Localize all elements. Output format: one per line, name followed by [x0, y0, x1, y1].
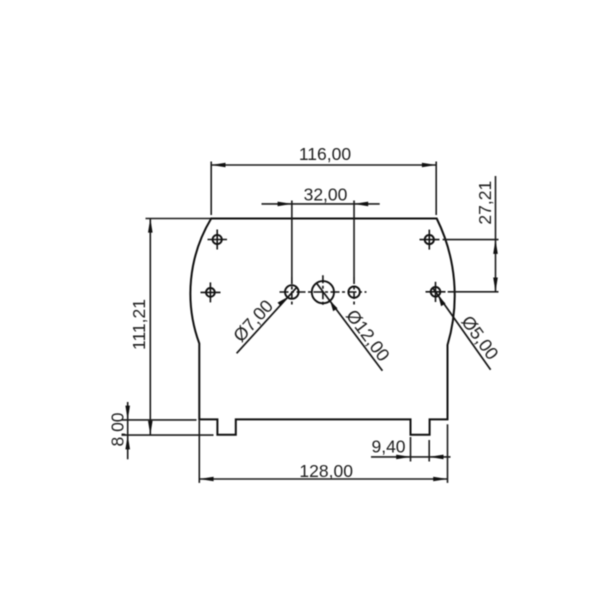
svg-text:116,00: 116,00: [299, 144, 351, 164]
svg-text:Ø12,00: Ø12,00: [342, 306, 394, 365]
svg-text:9,40: 9,40: [371, 437, 405, 457]
svg-text:27,21: 27,21: [475, 181, 495, 225]
svg-text:32,00: 32,00: [304, 185, 348, 205]
svg-text:111,21: 111,21: [129, 299, 149, 350]
svg-text:128,00: 128,00: [299, 461, 353, 481]
svg-text:Ø7,00: Ø7,00: [229, 296, 277, 346]
svg-text:8,00: 8,00: [108, 412, 128, 446]
